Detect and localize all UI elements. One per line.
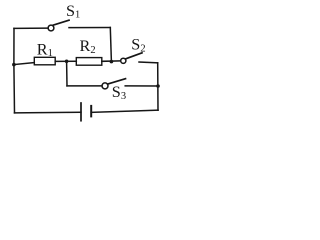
node B junction xyxy=(110,60,114,64)
wire node A drop xyxy=(66,61,68,86)
switch S2 pivot circle xyxy=(121,58,126,63)
resistor R1 xyxy=(34,57,55,65)
svg-text:R1: R1 xyxy=(37,40,53,59)
wire middle row left segment xyxy=(14,63,34,65)
wire S1 branch vertical down to node B xyxy=(110,28,111,62)
wire S3 fixed contact to node C xyxy=(125,85,158,87)
switch S3 pivot circle xyxy=(102,83,108,89)
wire battery to bottom right xyxy=(91,110,158,112)
svg-text:R2: R2 xyxy=(80,37,96,56)
wire top-left to S1 pivot xyxy=(14,27,48,29)
wire left vertical xyxy=(13,28,16,113)
svg-text:S2: S2 xyxy=(131,36,145,55)
resistor R2 xyxy=(76,58,102,66)
wire bottom left to battery xyxy=(15,111,81,114)
switch S1 lever xyxy=(53,20,69,25)
switch S1 pivot circle xyxy=(48,25,54,31)
node left junction xyxy=(12,63,16,67)
wire between R1 and node A xyxy=(55,60,76,62)
battery long plate xyxy=(80,103,82,121)
wire S1 fixed contact to corner xyxy=(69,27,110,29)
battery short plate xyxy=(90,106,92,117)
wire right vertical xyxy=(157,63,159,110)
node A junction xyxy=(65,60,69,64)
wire R2 to S2 pivot xyxy=(102,60,121,62)
wire S2 fixed contact to right corner xyxy=(139,61,158,64)
switch S3 lever xyxy=(108,79,126,84)
switch S2 lever xyxy=(125,53,142,59)
svg-text:S3: S3 xyxy=(112,83,126,102)
svg-text:S1: S1 xyxy=(66,2,80,21)
node C junction xyxy=(156,84,160,88)
wire S3 left segment xyxy=(67,85,102,87)
